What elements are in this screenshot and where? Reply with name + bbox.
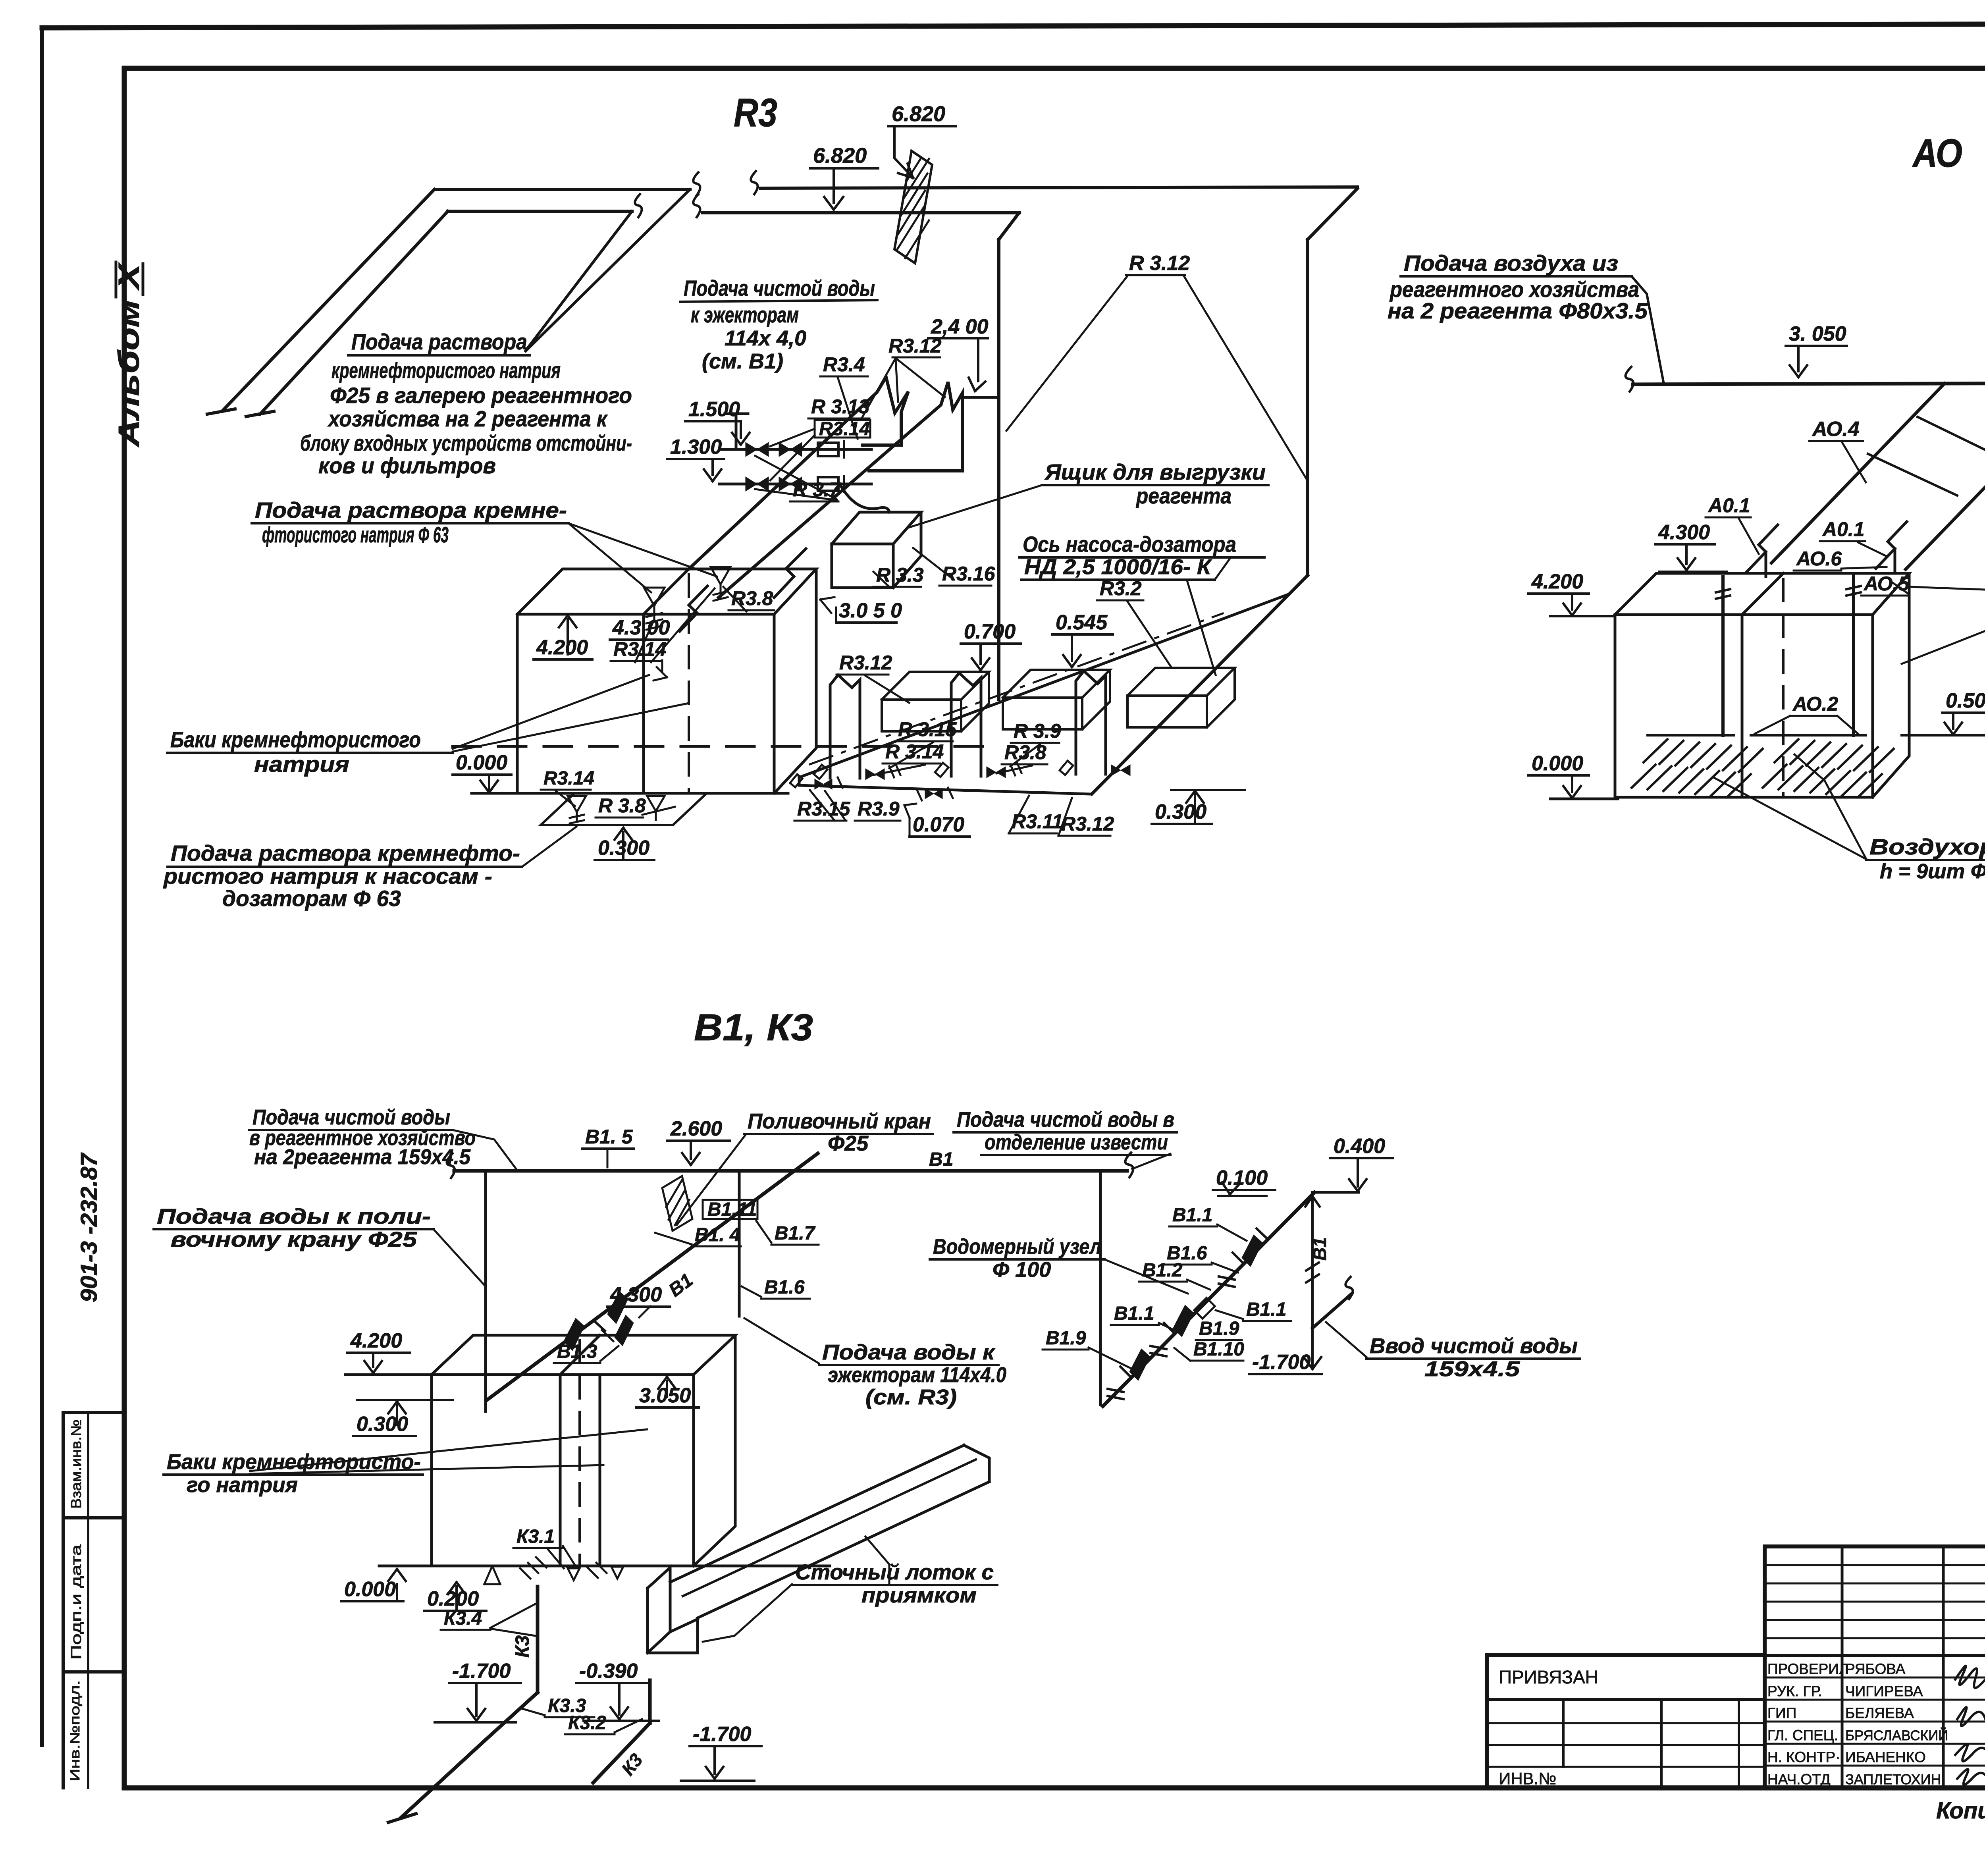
wall section hatch block	[894, 151, 932, 263]
second drain vertical	[648, 1680, 652, 1723]
svg-text:В1.1: В1.1	[1172, 1205, 1212, 1226]
svg-text:901-3 -232.87: 901-3 -232.87	[76, 1152, 102, 1302]
building left wall chamfer	[999, 213, 1019, 239]
branch drop to tank	[484, 1171, 487, 1411]
svg-text:R3.12: R3.12	[1061, 813, 1114, 835]
svg-text:АО: АО	[1912, 131, 1962, 175]
valve row 1 pipe	[719, 448, 871, 451]
pump unit 2 box	[1003, 670, 1110, 698]
svg-text:К3.1: К3.1	[516, 1526, 555, 1547]
tank R3 divider	[642, 614, 645, 793]
funnel drain right	[647, 796, 665, 820]
second drain diagonal	[593, 1723, 650, 1783]
svg-text:3.0 5 0: 3.0 5 0	[839, 599, 902, 622]
svg-text:РУК. ГР.: РУК. ГР.	[1767, 1683, 1822, 1699]
leaders from F63 label to funnels	[569, 523, 651, 592]
K3 drain diagonal	[486, 1693, 538, 1740]
svg-text:0.000: 0.000	[456, 751, 507, 774]
left attach table	[1487, 1655, 1765, 1788]
pump unit 1 bottom valves	[814, 765, 827, 779]
svg-text:4.300: 4.300	[610, 1283, 662, 1306]
svg-text:К3.4: К3.4	[444, 1608, 482, 1629]
valve row2 a	[746, 477, 757, 491]
svg-text:натрия: натрия	[254, 752, 349, 777]
valve marks below 4.300	[615, 1315, 634, 1346]
air distribution line left	[1648, 734, 1734, 737]
tank B1 divider 2	[599, 1375, 601, 1566]
AO tank divider	[1741, 615, 1744, 797]
branch drop B1.6	[738, 1171, 741, 1316]
svg-text:Подача раствора кремне-: Подача раствора кремне-	[255, 497, 567, 523]
svg-text:Ящик для выгрузки: Ящик для выгрузки	[1044, 459, 1266, 484]
coupling row2	[818, 477, 838, 491]
svg-text:НД 2,5 1000/16- К: НД 2,5 1000/16- К	[1024, 555, 1212, 579]
svg-text:Подача воды к поли-: Подача воды к поли-	[157, 1205, 431, 1228]
valve cluster mid on diagonal	[1173, 1305, 1194, 1337]
svg-text:Ф25 в галерею реагентного: Ф25 в галерею реагентного	[330, 383, 632, 408]
AO tank top face	[1615, 573, 1909, 615]
left margin boxes	[62, 1413, 65, 1788]
break symbol on outer line	[693, 172, 700, 195]
tank B1 right face	[694, 1335, 735, 1566]
svg-text:В1.9: В1.9	[1046, 1328, 1086, 1349]
svg-text:ПРОВЕРИЛ: ПРОВЕРИЛ	[1767, 1661, 1848, 1677]
svg-text:R 3.8: R 3.8	[598, 794, 646, 817]
pipe end serif left outer	[207, 409, 235, 414]
ground line	[472, 792, 788, 795]
svg-text:К3.2: К3.2	[568, 1712, 607, 1733]
svg-text:R 3.14: R 3.14	[885, 740, 944, 763]
svg-text:0.300: 0.300	[1155, 800, 1206, 823]
svg-text:Подача чистой воды: Подача чистой воды	[684, 276, 875, 301]
svg-text:2.600: 2.600	[670, 1117, 722, 1140]
svg-text:ЗАПЛЕТОХИН: ЗАПЛЕТОХИН	[1845, 1771, 1941, 1787]
svg-text:0.200: 0.200	[427, 1587, 479, 1610]
svg-text:(см. R3): (см. R3)	[865, 1385, 957, 1409]
pump unit 2 riser	[951, 673, 981, 776]
svg-text:Баки кремнефтористо-: Баки кремнефтористо-	[167, 1450, 421, 1474]
svg-text:В1: В1	[665, 1270, 697, 1301]
ejector diagonal B1	[488, 1153, 818, 1400]
svg-text:R3.12: R3.12	[888, 335, 942, 357]
svg-text:0.070: 0.070	[913, 813, 964, 836]
svg-text:R3.4: R3.4	[823, 353, 865, 376]
leader from label to channel	[522, 827, 576, 867]
svg-text:4.3 00: 4.3 00	[612, 616, 670, 639]
leader R3.12 to right wall	[1184, 276, 1306, 478]
svg-text:В1, К3: В1, К3	[694, 1006, 813, 1049]
svg-text:Взам.инв.№: Взам.инв.№	[68, 1419, 84, 1509]
outer border top	[42, 23, 1985, 28]
pump unit 2 bottom valves	[935, 763, 948, 777]
leader inlet	[1326, 1322, 1366, 1357]
svg-text:эжекторам 114х4.0: эжекторам 114х4.0	[828, 1363, 1006, 1387]
pipe R3 roof left diagonal outer	[222, 189, 434, 411]
pipe R3 roof right diagonal inner	[527, 211, 632, 349]
svg-text:приямком: приямком	[861, 1583, 977, 1607]
break symbol on inner line	[635, 194, 642, 217]
svg-text:Поливочный кран: Поливочный кран	[748, 1109, 931, 1133]
leaders from R3.14 to funnels	[635, 619, 654, 662]
svg-text:Баки кремнефтористого: Баки кремнефтористого	[170, 727, 421, 752]
tank B1 top face	[432, 1335, 735, 1375]
hatch band left	[1644, 739, 1763, 772]
leaders tanks label B1	[250, 1429, 647, 1471]
building left wall	[997, 239, 1000, 700]
floor slab bottom edge	[799, 785, 1091, 794]
svg-text:Подача раствора кремнефто-: Подача раствора кремнефто-	[171, 841, 520, 866]
svg-text:кремнефтористого натрия: кремнефтористого натрия	[331, 358, 561, 383]
leader to unit	[1104, 1259, 1188, 1294]
ejector riser diagonal P2 upper	[719, 382, 962, 598]
gutter pit box	[648, 1588, 698, 1653]
pipe R3 roof supply outer line	[434, 188, 690, 191]
svg-text:R3.14: R3.14	[543, 768, 594, 789]
reagent box right face	[893, 512, 921, 588]
svg-text:Н. КОНТР·: Н. КОНТР·	[1767, 1749, 1840, 1765]
pump unit 1 box	[882, 672, 989, 700]
drain marks under tank	[484, 1566, 500, 1584]
valves on diagonal	[564, 1318, 584, 1351]
coupling row1	[818, 443, 838, 456]
leader to B1 pipe	[453, 1130, 516, 1169]
svg-text:АО.4: АО.4	[1812, 418, 1860, 441]
left corner valve marks near slab	[790, 774, 802, 787]
svg-text:1.500: 1.500	[688, 398, 740, 421]
svg-text:4.300: 4.300	[1658, 521, 1710, 544]
tank R3 front face	[517, 614, 774, 793]
svg-text:В1.6: В1.6	[764, 1277, 805, 1298]
svg-text:h = 9шт Ф15мм с отверстиями: h = 9шт Ф15мм с отверстиями Ф 15мм	[1880, 860, 1985, 883]
leaders from tanks label	[1910, 587, 1985, 593]
reagent box top face	[832, 512, 921, 544]
svg-text:В1.1: В1.1	[1246, 1299, 1286, 1320]
funnel drain left	[568, 796, 586, 823]
svg-text:вочному крану Ф25: вочному крану Ф25	[171, 1228, 417, 1251]
svg-text:ГИП: ГИП	[1767, 1705, 1796, 1721]
svg-text:3. 050: 3. 050	[1789, 322, 1846, 345]
svg-text:R3: R3	[734, 91, 777, 135]
svg-text:Подача воздуха из: Подача воздуха из	[1404, 251, 1618, 276]
svg-text:R3.8: R3.8	[731, 587, 773, 609]
valve R3.13 row1 a	[746, 442, 757, 457]
svg-text:В1.1: В1.1	[1114, 1303, 1154, 1324]
svg-text:А0.1: А0.1	[1707, 494, 1750, 517]
svg-text:хозяйства на 2 реагента к: хозяйства на 2 реагента к	[327, 406, 608, 431]
svg-text:0.300: 0.300	[357, 1413, 408, 1436]
svg-text:БЕЛЯЕВА: БЕЛЯЕВА	[1845, 1705, 1914, 1721]
reagent box front face	[832, 544, 893, 588]
funnel at tank top R3.8	[711, 567, 730, 601]
B1 main pipe	[454, 1169, 1127, 1173]
AO tank front face	[1615, 615, 1873, 797]
svg-text:R 3.12: R 3.12	[1129, 252, 1190, 275]
drop from B1 end	[1099, 1171, 1102, 1405]
break left	[447, 1153, 455, 1178]
tank R3 dashed water level	[453, 745, 994, 748]
floor slab left edge	[798, 777, 801, 785]
svg-text:блоку входных устройств отст: блоку входных устройств отстойни-	[300, 430, 632, 455]
leader from label to pipe	[1632, 276, 1663, 382]
pump unit 3 bottom valves	[1060, 761, 1073, 775]
svg-text:ИБАНЕНКО: ИБАНЕНКО	[1845, 1749, 1926, 1765]
valve row 2 pipe	[719, 483, 871, 486]
leaders to hatch bands	[1794, 754, 1866, 859]
svg-text:R 3.15: R 3.15	[898, 718, 957, 740]
riser zigzag right A0.1	[1876, 522, 1907, 569]
outer border left	[40, 28, 44, 1745]
air duct diagonal 2	[1906, 384, 1985, 569]
vent riser with tee	[735, 414, 738, 449]
top tick of inlet	[1314, 1191, 1359, 1194]
leaders gutter	[703, 1584, 792, 1642]
tank B1 center dashed	[578, 1340, 581, 1566]
break right	[1125, 1153, 1133, 1177]
air level line	[1902, 734, 1985, 737]
pipe R3 roof right diagonal outer	[526, 189, 690, 351]
AO tank center dashed	[1782, 579, 1785, 797]
svg-text:R3.2: R3.2	[1100, 577, 1142, 600]
svg-text:1.300: 1.300	[670, 436, 722, 459]
svg-text:дозаторам Ф 63: дозаторам Ф 63	[222, 886, 401, 911]
AO main air pipe	[1633, 383, 1985, 384]
svg-text:0.545: 0.545	[1056, 611, 1108, 634]
hatch band right	[1775, 739, 1894, 772]
pump unit 3 box	[1127, 668, 1235, 696]
down pipe A0.1 left	[1721, 576, 1725, 735]
svg-text:АО.5: АО.5	[1863, 573, 1910, 595]
inlet diagonal	[1103, 1192, 1314, 1406]
vertical dim line B1	[1311, 1192, 1314, 1366]
svg-text:В1. 4: В1. 4	[695, 1224, 740, 1246]
tall mid table	[1765, 1546, 1985, 1788]
svg-text:го натрия: го натрия	[187, 1473, 298, 1497]
svg-text:АО.6: АО.6	[1796, 548, 1842, 570]
tank R3 top face	[517, 569, 816, 614]
middle bottom valve marks	[925, 789, 934, 799]
leader sprinkler to pipe	[677, 1135, 746, 1225]
svg-text:0.700: 0.700	[964, 620, 1016, 643]
riser zigzag left A0.1	[1747, 525, 1778, 572]
svg-text:А0.1: А0.1	[1822, 518, 1865, 540]
pipe R3 roof left diagonal inner	[260, 211, 448, 414]
valve cluster upper on diagonal	[1242, 1235, 1262, 1267]
duct rung a	[1868, 454, 1957, 496]
svg-text:R 3.13: R 3.13	[811, 395, 870, 418]
zigzag riser at tank divider	[680, 586, 707, 631]
svg-text:Инв.№подл.: Инв.№подл.	[67, 1680, 82, 1782]
svg-text:159х4.5: 159х4.5	[1424, 1357, 1520, 1381]
ground line AO	[1550, 798, 1618, 800]
wall hatch on diagonal	[662, 1176, 692, 1231]
svg-text:3.050: 3.050	[639, 1384, 691, 1407]
svg-text:Ось насоса-дозатора: Ось насоса-дозатора	[1023, 532, 1236, 557]
svg-text:ков и фильтров: ков и фильтров	[318, 453, 496, 478]
zigzag riser at tank right	[774, 549, 806, 598]
svg-text:R 3.9: R 3.9	[1014, 720, 1061, 742]
svg-text:ИНВ.№: ИНВ.№	[1499, 1769, 1556, 1788]
svg-text:В1.7: В1.7	[775, 1223, 816, 1244]
svg-text:4.200: 4.200	[1531, 570, 1583, 593]
svg-text:0.000: 0.000	[1532, 752, 1583, 775]
leader to box	[907, 485, 1042, 528]
svg-text:R3.14: R3.14	[819, 418, 870, 440]
leader R3.12 to left wall	[1006, 276, 1127, 431]
svg-text:-0.390: -0.390	[579, 1660, 638, 1683]
svg-text:ЧИГИРЕВА: ЧИГИРЕВА	[1845, 1683, 1923, 1699]
svg-text:БРЯСЛАВСКИЙ: БРЯСЛАВСКИЙ	[1845, 1728, 1948, 1743]
leader	[434, 1229, 486, 1286]
floor slab back edge	[799, 594, 1288, 777]
svg-text:114х 4,0: 114х 4,0	[725, 326, 806, 350]
air duct diagonal 1	[1771, 384, 1945, 563]
svg-text:ПРИВЯЗАН: ПРИВЯЗАН	[1499, 1667, 1598, 1687]
svg-text:6.820: 6.820	[813, 144, 867, 168]
tank B1 front face	[432, 1375, 694, 1566]
svg-text:к эжекторам: к эжекторам	[691, 302, 799, 327]
hose to box	[841, 486, 889, 512]
duct rung b	[1918, 417, 1985, 461]
svg-text:Подача раствора: Подача раствора	[351, 329, 527, 354]
break at left end	[1625, 367, 1633, 391]
building wall top chamfer right	[1308, 189, 1357, 239]
svg-text:Ввод чистой воды: Ввод чистой воды	[1370, 1334, 1578, 1358]
leader to pipe end	[1132, 1154, 1170, 1169]
svg-text:R3.9: R3.9	[858, 798, 900, 820]
svg-text:реагента: реагента	[1135, 483, 1231, 508]
svg-text:Подача воды к: Подача воды к	[822, 1340, 996, 1364]
svg-text:Подп.и дата: Подп.и дата	[68, 1544, 84, 1660]
valve R3.13 row1 b	[779, 442, 790, 457]
pipe end serif left inner	[246, 411, 274, 416]
svg-text:В1.11: В1.11	[707, 1199, 757, 1220]
svg-text:отделение извести: отделение извести	[985, 1130, 1168, 1154]
svg-text:R3.8: R3.8	[1004, 741, 1046, 764]
svg-text:В1.9: В1.9	[1199, 1318, 1239, 1339]
svg-text:Ф25: Ф25	[828, 1132, 869, 1155]
svg-text:НАЧ.ОТД: НАЧ.ОТД	[1767, 1771, 1831, 1787]
leader to diagonal	[744, 1318, 819, 1363]
tank B1 divider 1	[559, 1375, 562, 1566]
down pipe A0.1 right	[1852, 573, 1855, 735]
svg-text:Воздухораспределительная сист: Воздухораспределительная система	[1869, 834, 1985, 859]
svg-text:РЯБОВА: РЯБОВА	[1845, 1661, 1906, 1677]
svg-text:на 2 реагента Ф80х3.5: на 2 реагента Ф80х3.5	[1388, 298, 1648, 323]
svg-text:4.200: 4.200	[536, 636, 588, 659]
svg-text:Копировал: Антипова.: Копировал: Антипова.	[1936, 1798, 1985, 1824]
svg-text:4.200: 4.200	[350, 1329, 402, 1352]
svg-text:фтористого натрия Ф 63: фтористого натрия Ф 63	[262, 522, 449, 547]
svg-text:Ф 100: Ф 100	[992, 1258, 1051, 1282]
svg-text:-1.700: -1.700	[693, 1723, 752, 1746]
pipe R3 roof supply inner line	[448, 210, 632, 213]
svg-text:-1.700: -1.700	[1252, 1351, 1311, 1374]
svg-text:АО.2: АО.2	[1792, 693, 1838, 715]
pump unit 3 riser	[1076, 671, 1106, 774]
svg-text:R3.16: R3.16	[942, 563, 996, 585]
svg-text:ристого натрия к насосам -: ристого натрия к насосам -	[163, 864, 492, 889]
svg-text:Подача чистой воды: Подача чистой воды	[252, 1105, 450, 1129]
valve row2 b	[779, 477, 790, 491]
ejector riser diagonal P1 upper	[689, 377, 908, 569]
svg-text:Подача чистой воды в: Подача чистой воды в	[957, 1108, 1174, 1132]
svg-text:В1: В1	[1309, 1237, 1330, 1261]
svg-text:-1.700: -1.700	[452, 1660, 511, 1683]
svg-text:(см. В1): (см. В1)	[702, 349, 783, 373]
leaders into tank	[453, 675, 649, 749]
svg-text:0.500: 0.500	[1946, 689, 1985, 712]
outlet channel under tank	[541, 793, 707, 825]
pump unit 1 riser	[830, 675, 860, 778]
svg-text:К3: К3	[512, 1635, 533, 1658]
svg-text:Водомерный узел: Водомерный узел	[933, 1235, 1101, 1259]
svg-text:R 3.3: R 3.3	[876, 564, 924, 586]
inlet stub diagonal	[1312, 1294, 1352, 1328]
ceiling pipe 6.820 outer continued	[760, 187, 1357, 188]
tank R3 right face	[774, 569, 816, 793]
valve cluster lower on diagonal	[1129, 1349, 1150, 1380]
svg-text:6.820: 6.820	[892, 102, 945, 126]
building right wall	[1306, 239, 1309, 575]
building right wall base diagonal	[1092, 575, 1308, 794]
svg-text:ГЛ. СПЕЦ.: ГЛ. СПЕЦ.	[1767, 1727, 1838, 1743]
svg-text:В1.2: В1.2	[1142, 1260, 1183, 1281]
ceiling pipe 6.820 inner continued	[703, 211, 1019, 214]
gutter channel	[670, 1445, 964, 1582]
svg-text:0.400: 0.400	[1334, 1135, 1385, 1158]
AO tank right face	[1873, 573, 1909, 797]
svg-text:R3.12: R3.12	[839, 652, 892, 674]
tank R3 center dash line	[688, 575, 690, 793]
svg-text:на 2реагента 159х4.5: на 2реагента 159х4.5	[254, 1145, 471, 1169]
svg-text:Сточный лоток с: Сточный лоток с	[795, 1560, 994, 1584]
svg-text:В1. 5: В1. 5	[585, 1126, 633, 1148]
signatures squiggles	[1955, 1666, 1985, 1688]
K3 riser	[536, 1587, 540, 1693]
svg-text:R3.14: R3.14	[613, 638, 666, 660]
ground line B1	[379, 1565, 830, 1568]
svg-text:В1.10: В1.10	[1193, 1339, 1244, 1360]
pump axis dash-dot line	[810, 613, 1223, 764]
svg-text:В1: В1	[929, 1149, 953, 1170]
level line 4.300	[1659, 571, 1727, 573]
funnel at tank top R3.14	[644, 588, 665, 630]
leader from axis label	[1215, 557, 1231, 580]
